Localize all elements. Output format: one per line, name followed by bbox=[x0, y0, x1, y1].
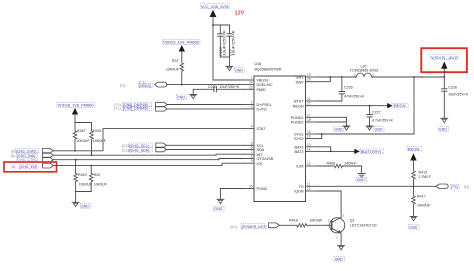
svg-text:10K0UF: 10K0UF bbox=[77, 139, 91, 143]
svg-text:PGND: PGND bbox=[257, 187, 268, 191]
svg-text:16: 16 bbox=[307, 135, 311, 139]
power net VDD08 at R37 bbox=[162, 40, 200, 52]
svg-text:[TS]: [TS] bbox=[451, 185, 458, 189]
svg-text:(11): (11) bbox=[120, 84, 125, 88]
ground input caps bbox=[226, 66, 245, 72]
pin 8 OTG/USB bbox=[244, 155, 274, 162]
svg-text:R406: R406 bbox=[327, 162, 336, 166]
svg-text:PMID: PMID bbox=[257, 88, 267, 92]
pin 14 BAT2 bbox=[295, 147, 318, 154]
svg-text:1: 1 bbox=[251, 76, 253, 80]
svg-text:GND: GND bbox=[375, 127, 383, 131]
ground PGND pins bbox=[334, 126, 351, 131]
svg-text:8: 8 bbox=[251, 155, 253, 159]
port CHG_STAT bbox=[11, 148, 53, 153]
wire D+ bbox=[167, 104, 243, 106]
svg-text:U16: U16 bbox=[255, 62, 262, 66]
svg-text:VBUS1: VBUS1 bbox=[257, 79, 269, 83]
port CN6_DMN450 bbox=[114, 107, 167, 112]
svg-text:13: 13 bbox=[307, 143, 311, 147]
svg-text:2: 2 bbox=[251, 101, 253, 105]
svg-text:3: 3 bbox=[343, 214, 345, 218]
wire CHG_STAT to pin 4 bbox=[53, 129, 243, 151]
pin 22 REGN bbox=[293, 102, 318, 109]
ground Q1 emitter bbox=[334, 246, 345, 262]
svg-text:10uF/25V+K: 10uF/25V+K bbox=[220, 85, 241, 89]
svg-text:15: 15 bbox=[307, 130, 311, 134]
svg-text:(6.1): (6.1) bbox=[230, 225, 237, 229]
svg-text:TS: TS bbox=[299, 185, 304, 189]
svg-text:R267: R267 bbox=[77, 129, 86, 133]
resistor R413 bbox=[412, 170, 432, 186]
svg-text:[CN6]_DMN450: [CN6]_DMN450 bbox=[123, 107, 148, 111]
capacitor C26 bbox=[227, 25, 236, 57]
svg-text:BAT1: BAT1 bbox=[295, 145, 304, 149]
ground C227 bbox=[366, 126, 384, 131]
svg-text:10K0UF: 10K0UF bbox=[79, 183, 93, 187]
svg-text:C228: C228 bbox=[448, 85, 457, 89]
ground pulldowns bbox=[72, 202, 90, 208]
svg-text:PGND2: PGND2 bbox=[291, 121, 304, 125]
svg-text:12V: 12V bbox=[235, 10, 245, 16]
svg-text:2: 2 bbox=[372, 73, 374, 77]
svg-text:GND: GND bbox=[235, 69, 243, 73]
svg-text:VCC_USB_4V35: VCC_USB_4V35 bbox=[201, 4, 229, 9]
pin 13 BAT1 bbox=[295, 143, 318, 150]
svg-text:R417: R417 bbox=[417, 195, 426, 199]
pin 23 PMID bbox=[244, 85, 267, 92]
svg-text:240R-F: 240R-F bbox=[345, 162, 358, 166]
svg-text:ILIM: ILIM bbox=[296, 165, 303, 169]
svg-text:25: 25 bbox=[249, 185, 253, 189]
power net VSYS_4V2 bbox=[431, 55, 459, 78]
svg-text:GND: GND bbox=[177, 96, 185, 100]
capacitor C227 bbox=[367, 106, 394, 126]
svg-text:19: 19 bbox=[307, 73, 311, 77]
ground C220 bbox=[176, 89, 196, 99]
port CN6_DMP450 bbox=[114, 102, 167, 107]
svg-text:STAT: STAT bbox=[257, 127, 267, 131]
svg-text:Q1: Q1 bbox=[350, 219, 355, 223]
svg-text:24: 24 bbox=[249, 81, 253, 85]
resistor R406 ILIM bbox=[318, 162, 362, 168]
svg-text:BAT2: BAT2 bbox=[295, 150, 304, 154]
svg-text:4.7uF/25V+K: 4.7uF/25V+K bbox=[372, 118, 394, 122]
pin 10 ILIM bbox=[296, 162, 318, 169]
svg-text:REGN: REGN bbox=[408, 146, 420, 151]
svg-text:23: 23 bbox=[249, 85, 253, 89]
pin 18 PGND2 bbox=[291, 118, 318, 125]
svg-text:2.7kR-F: 2.7kR-F bbox=[419, 175, 433, 179]
pin 25 PGND bbox=[244, 185, 268, 192]
resistor R418 bbox=[279, 218, 326, 227]
svg-text:18: 18 bbox=[307, 118, 311, 122]
wire BTST bbox=[318, 100, 342, 102]
port VBUS bbox=[120, 80, 167, 88]
svg-text:R410: R410 bbox=[78, 173, 87, 177]
svg-text:47nF/25V+K: 47nF/25V+K bbox=[344, 95, 365, 99]
wire pulldown join bbox=[76, 192, 92, 203]
pin 2 D+/PSEL bbox=[244, 101, 272, 108]
svg-text:C220: C220 bbox=[208, 85, 217, 89]
wire SW rail bbox=[318, 76, 444, 82]
pin 11 TS bbox=[299, 182, 318, 189]
svg-text:6: 6 bbox=[251, 146, 253, 150]
svg-text:10uF/25V+K: 10uF/25V+K bbox=[232, 29, 236, 56]
svg-text:TCMC8085-1R0S: TCMC8085-1R0S bbox=[350, 69, 379, 73]
ground PGND bbox=[214, 199, 225, 211]
svg-text:VDD08_1V8_PM660: VDD08_1V8_PM660 bbox=[58, 103, 95, 108]
svg-text:21: 21 bbox=[307, 97, 311, 101]
svg-text:R37: R37 bbox=[172, 59, 179, 63]
resistor R267 bbox=[73, 123, 90, 152]
svg-text:SDA: SDA bbox=[257, 148, 265, 152]
wire CHG_IND to pin 7 bbox=[53, 154, 243, 155]
svg-text:10K0UF: 10K0UF bbox=[309, 218, 323, 222]
svg-text:REGN: REGN bbox=[394, 103, 406, 108]
svg-text:10K0UF: 10K0UF bbox=[93, 139, 107, 143]
wire VBUS port to pin 24 bbox=[167, 84, 244, 86]
svg-text:10uF/25V+K: 10uF/25V+K bbox=[222, 29, 226, 56]
op-amp U16 charger IC body bbox=[254, 62, 306, 201]
svg-text:C226: C226 bbox=[344, 86, 353, 90]
wire REGN out bbox=[318, 105, 387, 107]
svg-text:11: 11 bbox=[307, 182, 311, 186]
svg-text:BTST: BTST bbox=[294, 100, 304, 104]
port CHG_IND bbox=[11, 153, 53, 158]
wire BAT join bbox=[318, 147, 354, 153]
red highlight box VSYS bbox=[421, 48, 467, 72]
svg-text:(6): (6) bbox=[12, 165, 16, 169]
pin 1 VBUS1 bbox=[244, 76, 269, 83]
svg-text:3: 3 bbox=[251, 105, 253, 109]
svg-text:LDTC143TET1G: LDTC143TET1G bbox=[350, 224, 377, 228]
transistor Q1 bbox=[326, 214, 377, 246]
pin 12 /QON bbox=[294, 187, 318, 194]
port POWER_KEY bbox=[230, 223, 279, 229]
ground C228 bbox=[438, 118, 449, 131]
resistor R417 bbox=[412, 186, 431, 216]
svg-text:[BATTERY]: [BATTERY] bbox=[361, 149, 381, 154]
svg-text:[CHG_SDA]: [CHG_SDA] bbox=[130, 148, 149, 152]
port TS bbox=[436, 184, 469, 189]
pin 24 DSEL/NC bbox=[244, 81, 273, 88]
wire SYS rail riser bbox=[318, 76, 415, 139]
svg-text:4: 4 bbox=[251, 125, 253, 129]
svg-text:1: 1 bbox=[354, 73, 356, 77]
resistor R410 bbox=[74, 159, 93, 192]
pin 17 PGND1 bbox=[291, 113, 318, 120]
svg-text:R20: R20 bbox=[94, 173, 101, 177]
svg-text:9: 9 bbox=[251, 159, 253, 163]
svg-text:D+/PSEL: D+/PSEL bbox=[257, 103, 272, 107]
svg-text:OTG/USB: OTG/USB bbox=[257, 157, 274, 161]
svg-text:R401: R401 bbox=[93, 129, 102, 133]
capacitor C226 bootstrap bbox=[339, 77, 364, 101]
node BATTERY off-page arrow bbox=[354, 149, 384, 154]
wire CHG_EN to pin 9 bbox=[53, 163, 243, 165]
wire PGND pin25 to ground bbox=[220, 189, 243, 200]
port CHG_SCL bbox=[122, 143, 166, 148]
svg-text:/QON: /QON bbox=[294, 190, 304, 194]
svg-text:20: 20 bbox=[307, 78, 311, 82]
port CHG_CTRL bbox=[17, 157, 54, 162]
svg-text:DSEL/NC: DSEL/NC bbox=[257, 83, 273, 87]
wire TS line bbox=[318, 185, 436, 187]
pin 4 STAT bbox=[244, 125, 267, 132]
svg-text:10K0UF: 10K0UF bbox=[94, 183, 108, 187]
wire D- bbox=[167, 108, 243, 110]
inductor L20 bbox=[350, 64, 379, 77]
capacitor C220 bbox=[193, 85, 240, 92]
svg-text:R418: R418 bbox=[289, 218, 298, 222]
pin 6 SDA bbox=[244, 146, 265, 153]
capacitor C228 bbox=[442, 77, 469, 118]
wire PGND1 PGND2 join bbox=[318, 117, 347, 125]
svg-text:1: 1 bbox=[328, 219, 330, 223]
svg-text:[POWER_KEY]: [POWER_KEY] bbox=[242, 225, 267, 229]
pin 20 SW2 bbox=[296, 78, 319, 85]
wire caps bottom join bbox=[220, 57, 229, 66]
svg-text:GND: GND bbox=[335, 257, 343, 261]
svg-text:/CE: /CE bbox=[257, 162, 264, 166]
svg-text:GND: GND bbox=[409, 225, 417, 229]
svg-text:GND: GND bbox=[334, 127, 342, 131]
svg-text:SW1: SW1 bbox=[296, 76, 304, 80]
wire CHG_CTRL to pin 8 bbox=[53, 159, 243, 160]
ground ILIM bbox=[356, 166, 367, 182]
svg-text:(7.1): (7.1) bbox=[114, 107, 121, 111]
svg-text:GND: GND bbox=[81, 204, 89, 208]
svg-text:14: 14 bbox=[307, 147, 311, 151]
svg-text:BQ2589ORTWR: BQ2589ORTWR bbox=[255, 68, 282, 72]
svg-text:C227: C227 bbox=[372, 111, 381, 115]
svg-text:10: 10 bbox=[307, 162, 311, 166]
wire 12V rail down to VBUS pin1 bbox=[213, 17, 244, 80]
wire PMID to C220 bbox=[216, 88, 243, 90]
pin 5 SCL bbox=[244, 141, 264, 148]
pin 15 SYS1 bbox=[294, 130, 318, 137]
svg-text:GND: GND bbox=[214, 207, 222, 211]
wire branch to input caps bbox=[212, 24, 229, 26]
port CHG_SDA bbox=[122, 147, 166, 152]
pin 7 INT bbox=[244, 150, 264, 157]
wire SDA bbox=[166, 149, 243, 151]
capacitor C225 bbox=[218, 25, 227, 57]
svg-text:(11): (11) bbox=[464, 185, 469, 189]
pin 21 BTST bbox=[294, 97, 318, 104]
svg-text:D-/PG: D-/PG bbox=[257, 108, 267, 112]
svg-text:GND: GND bbox=[357, 178, 365, 182]
svg-text:10K0UF: 10K0UF bbox=[417, 203, 431, 207]
svg-text:10uF/25V+K: 10uF/25V+K bbox=[448, 92, 469, 96]
port CHG_EN bbox=[12, 163, 54, 169]
resistor R401 bbox=[90, 123, 107, 157]
label 12V bbox=[235, 10, 245, 16]
wire QON to Q1 bbox=[318, 191, 341, 217]
svg-text:2: 2 bbox=[336, 236, 338, 240]
pin 19 SW1 bbox=[296, 73, 319, 80]
svg-text:SYS1: SYS1 bbox=[294, 133, 303, 137]
svg-text:VSYS_4V2: VSYS_4V2 bbox=[431, 55, 458, 60]
red highlight box CHG_EN bbox=[4, 162, 57, 172]
svg-text:GND: GND bbox=[439, 128, 447, 132]
resistor R37 bbox=[166, 52, 184, 85]
svg-text:SYS2: SYS2 bbox=[294, 137, 303, 141]
svg-text:10K0UF: 10K0UF bbox=[166, 67, 180, 71]
svg-text:VDD08_1V8_PM660: VDD08_1V8_PM660 bbox=[163, 40, 200, 45]
resistor R20 bbox=[89, 165, 107, 192]
power net VDD08 pull-up cluster bbox=[57, 103, 95, 123]
svg-text:(6): (6) bbox=[11, 154, 15, 158]
pin 16 SYS2 bbox=[294, 135, 318, 142]
svg-text:22: 22 bbox=[307, 102, 311, 106]
node REGN off-page arrow bbox=[387, 103, 408, 108]
power net VCC_USB label 12V bbox=[200, 4, 229, 17]
svg-text:17: 17 bbox=[307, 113, 311, 117]
svg-text:SW2: SW2 bbox=[296, 80, 304, 84]
ground R417 bbox=[409, 217, 420, 230]
power net REGN divider bbox=[407, 146, 422, 170]
pin 9 /CE bbox=[244, 159, 264, 166]
svg-text:PGND1: PGND1 bbox=[291, 116, 304, 120]
pin 3 D-/PG bbox=[244, 105, 267, 112]
wire SCL bbox=[166, 144, 243, 146]
svg-text:12: 12 bbox=[307, 187, 311, 191]
svg-text:REGN: REGN bbox=[293, 104, 304, 108]
